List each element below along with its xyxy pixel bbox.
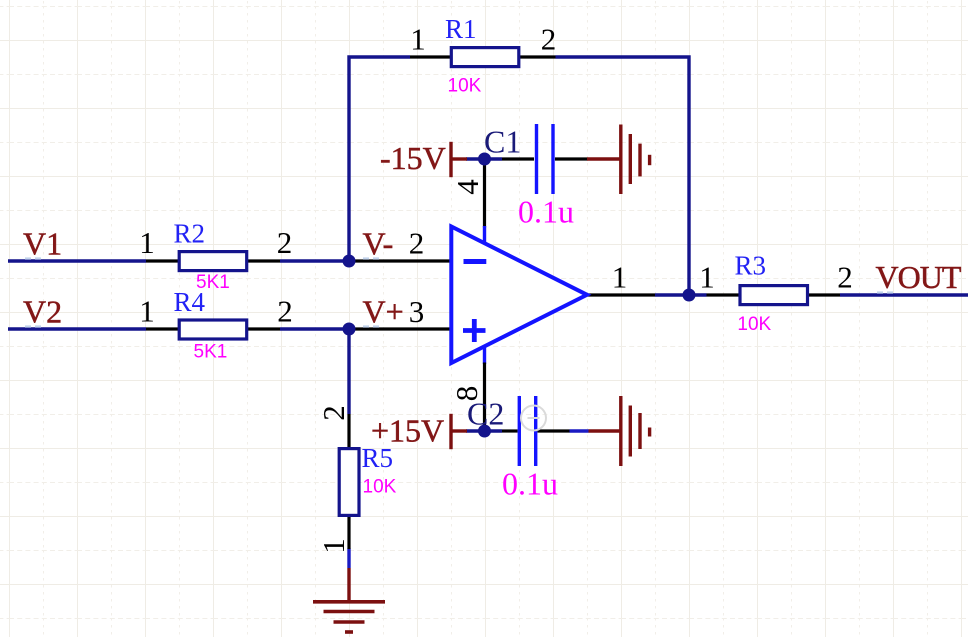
svg-text:V1: V1: [23, 225, 62, 261]
svg-text:-15V: -15V: [380, 140, 446, 176]
power ground near C1: [587, 125, 650, 195]
svg-text:1: 1: [612, 260, 628, 295]
svg-text:V+: V+: [363, 293, 404, 329]
junction output node: [683, 289, 696, 302]
wire V2 input: [8, 327, 146, 330]
svg-text:1: 1: [139, 225, 155, 260]
svg-text:0.1u: 0.1u: [518, 193, 574, 229]
svg-text:0.1u: 0.1u: [502, 465, 558, 501]
svg-text:1: 1: [139, 294, 155, 329]
junction -15V node: [478, 153, 491, 166]
wire R2 to node V-: [280, 259, 349, 262]
wire R4 to node V+: [280, 327, 349, 330]
svg-text:4: 4: [450, 179, 485, 195]
junction node V-: [343, 255, 356, 268]
wire +15V node to C2: [466, 429, 502, 432]
wire feedback left vertical: [349, 57, 410, 261]
resistor R5: [316, 405, 397, 554]
svg-text:R1: R1: [445, 14, 477, 44]
svg-text:1: 1: [410, 22, 426, 57]
svg-text:2: 2: [316, 405, 351, 421]
svg-text:VOUT: VOUT: [876, 259, 962, 295]
op-amp U1: [349, 159, 655, 431]
resistor R4: [139, 287, 293, 363]
svg-text:3: 3: [409, 294, 425, 329]
wire output node to R3: [655, 293, 707, 296]
wire node V+ down to R5: [347, 329, 350, 414]
wire C2 to ground: [570, 429, 589, 432]
svg-text:2: 2: [837, 260, 853, 295]
wire feedback right vertical: [556, 57, 690, 295]
svg-text:1: 1: [316, 538, 351, 554]
svg-text:V2: V2: [23, 293, 62, 329]
svg-text:+15V: +15V: [371, 413, 444, 449]
ground GND bottom: [313, 568, 385, 632]
wire R5 to ground: [347, 549, 350, 569]
resistor R1: [410, 14, 556, 96]
svg-text:10K: 10K: [737, 314, 771, 335]
svg-text:2: 2: [277, 225, 293, 260]
svg-text:R3: R3: [735, 251, 767, 281]
svg-text:1: 1: [699, 260, 715, 295]
wire R3 to VOUT: [840, 293, 968, 296]
svg-text:R4: R4: [174, 287, 206, 317]
svg-text:2: 2: [409, 226, 425, 261]
svg-text:10K: 10K: [448, 75, 482, 96]
svg-text:C1: C1: [484, 123, 521, 159]
svg-text:R2: R2: [174, 219, 206, 249]
resistor R3: [699, 251, 853, 335]
svg-text:2: 2: [541, 22, 557, 57]
svg-text:5K1: 5K1: [194, 342, 228, 363]
power port +15V: [371, 413, 467, 450]
junction +15V node: [478, 425, 491, 438]
power ground near C2: [589, 396, 650, 466]
capacitor C1: [484, 123, 588, 229]
wire V1 input: [8, 259, 146, 262]
svg-text:2: 2: [277, 294, 293, 329]
junction node V+: [343, 323, 356, 336]
power port -15V: [380, 140, 467, 177]
svg-text:10K: 10K: [363, 477, 397, 498]
wire -15V node to C1: [466, 157, 502, 160]
resistor R2: [139, 219, 292, 294]
svg-text:V-: V-: [363, 225, 394, 261]
capacitor C2: [467, 395, 570, 501]
